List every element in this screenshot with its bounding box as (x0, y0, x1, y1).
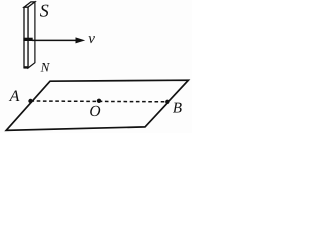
pole junction band (23, 38, 32, 41)
magnet side face (28, 2, 35, 68)
point B (165, 100, 169, 104)
magnet front face (24, 7, 28, 67)
point A (28, 99, 32, 103)
svg-text:S: S (40, 1, 49, 21)
svg-text:A: A (9, 88, 20, 105)
svg-text:v: v (88, 31, 95, 47)
dashed line AB (31, 100, 168, 103)
velocity arrow (32, 39, 77, 41)
svg-text:O: O (89, 103, 100, 120)
magnet top face (24, 2, 35, 7)
magnet bottom thick edge (24, 66, 29, 68)
svg-text:N: N (40, 60, 51, 75)
svg-text:B: B (173, 100, 182, 116)
point O (97, 99, 101, 103)
plane parallelogram (6, 80, 188, 130)
